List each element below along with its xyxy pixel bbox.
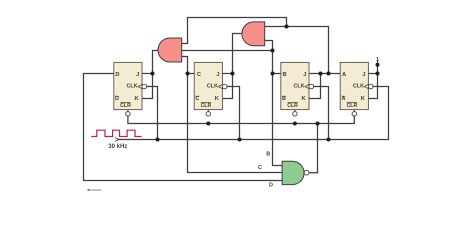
svg-text:J: J — [216, 72, 219, 78]
svg-text:J: J — [303, 72, 306, 78]
node FF2 J-K tie — [231, 72, 235, 76]
node clock rail FF2 — [238, 138, 242, 142]
svg-text:B: B — [282, 96, 286, 102]
svg-text:CLR: CLR — [347, 103, 358, 109]
svg-text:C: C — [195, 96, 199, 102]
svg-text:1: 1 — [376, 57, 379, 63]
wire FF3 B output stub — [273, 73, 281, 75]
svg-text:CLK: CLK — [353, 83, 364, 89]
svg-text:30 kHz: 30 kHz — [108, 144, 127, 150]
tiny caption mark bottom-left — [88, 189, 91, 191]
svg-text:D: D — [115, 96, 119, 102]
node A riser junction — [327, 72, 331, 76]
nand-gate U1 (3-input) — [282, 161, 304, 184]
wire gate G1 input B line — [182, 50, 273, 52]
svg-text:C: C — [258, 165, 262, 171]
wire FF2 C output stub — [188, 73, 195, 75]
node CLR rail FF3 — [293, 122, 297, 126]
wire gate G2 output to FF2 J-K tie — [222, 34, 242, 99]
node B output junction — [271, 72, 275, 76]
node gate G2 top input junction — [285, 25, 289, 29]
svg-text:C: C — [197, 72, 201, 78]
flip-flop FF2 (C) — [194, 62, 227, 116]
and-gate G1 (3-input, output left) — [158, 38, 182, 62]
svg-text:CLR: CLR — [201, 103, 212, 109]
node clock rail FF1 — [156, 138, 160, 142]
svg-text:A: A — [341, 96, 345, 102]
svg-text:CLR: CLR — [120, 103, 131, 109]
wire gate G2 top input line to A riser — [265, 27, 329, 74]
wire NAND output to CLR rail — [309, 124, 317, 173]
svg-text:D: D — [115, 72, 119, 78]
svg-text:J: J — [136, 72, 139, 78]
node FF4 J junction — [376, 72, 380, 76]
node clock rail FF3 — [327, 138, 331, 142]
wire D-net: FF1 D output left, down, to NAND D input — [84, 74, 283, 181]
wire FF2 CLK to clock rail — [227, 87, 239, 140]
wire FF1 CLK to clock rail — [147, 87, 158, 140]
svg-text:B: B — [282, 72, 286, 78]
flip-flop FF3 (B) — [281, 62, 314, 116]
wire FF2 J stub — [222, 73, 232, 75]
clock waveform 30 kHz — [92, 130, 141, 136]
node logic-1 terminal — [376, 63, 380, 67]
wire FF3 J-K tie — [309, 74, 321, 99]
wire FF4 CLK riser and clock rail — [118, 87, 389, 140]
node C output junction — [186, 72, 190, 76]
wire FF1 J stub — [142, 73, 153, 75]
wire FF3 CLK to clock rail — [314, 87, 329, 140]
svg-text:A: A — [342, 72, 346, 78]
svg-text:D: D — [269, 183, 273, 189]
wire FF3 J to FF4 A output line — [309, 73, 340, 75]
wire gate G2 bottom input and B riser to NAND B input — [265, 41, 282, 166]
svg-text:CLK: CLK — [127, 83, 138, 89]
nand-gate U1 output bubble — [304, 170, 309, 175]
and-gate G2 (2-input, output left) — [242, 22, 265, 46]
svg-text:J: J — [362, 72, 365, 78]
node CLR rail FF2 — [206, 122, 210, 126]
node CLR rail NAND — [316, 122, 320, 126]
flip-flop FF4 (A) — [340, 62, 373, 116]
svg-text:CLK: CLK — [207, 83, 218, 89]
junction dots — [151, 25, 380, 142]
node FF1 J-K tie — [151, 72, 155, 76]
svg-text:CLK: CLK — [294, 83, 305, 89]
flip-flop FF1 (D) — [114, 62, 147, 116]
wire C-net: gate G1 input C riser down to NAND C input — [182, 57, 282, 173]
wire CLR rail — [128, 116, 354, 124]
wire FF4 J stub — [368, 73, 377, 75]
svg-text:B: B — [266, 151, 270, 157]
node gate G1 B input junction — [271, 49, 275, 53]
wire gate G1 input A riser and top rail — [182, 18, 287, 44]
wire FF4 logic-1 tie to J and K — [368, 62, 377, 99]
node FF3 J-K tie — [319, 72, 323, 76]
wire gate G1 output to FF1 J-K tie — [142, 51, 158, 99]
svg-text:CLR: CLR — [287, 103, 298, 109]
clock input arrowhead — [115, 138, 118, 142]
